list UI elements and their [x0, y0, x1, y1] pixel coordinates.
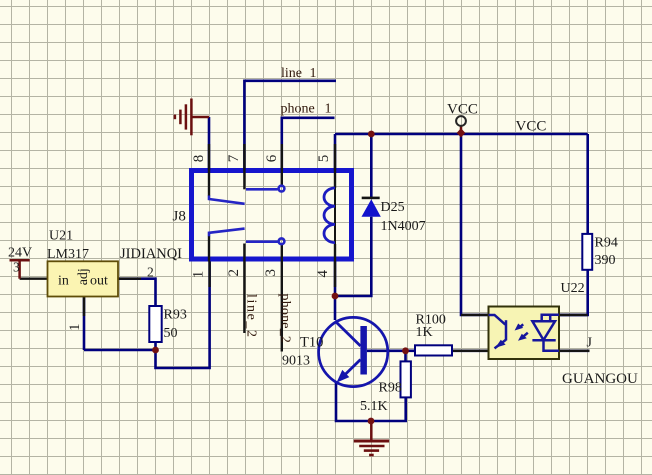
svg-text:390: 390 — [595, 253, 616, 268]
svg-text:JIDIANQI: JIDIANQI — [120, 246, 182, 262]
svg-text:1: 1 — [310, 66, 317, 81]
svg-text:1: 1 — [67, 324, 83, 332]
svg-text:9013: 9013 — [282, 354, 310, 369]
svg-text:out: out — [90, 274, 108, 289]
svg-text:5: 5 — [316, 155, 332, 163]
svg-text:5.1K: 5.1K — [360, 399, 388, 414]
svg-text:line: line — [281, 66, 302, 81]
svg-text:3: 3 — [263, 269, 279, 277]
svg-text:line_2: line_2 — [244, 294, 259, 339]
svg-text:J: J — [587, 336, 593, 351]
svg-text:J8: J8 — [173, 209, 186, 225]
svg-text:D25: D25 — [381, 200, 405, 215]
svg-text:R98: R98 — [379, 381, 402, 396]
svg-text:1N4007: 1N4007 — [381, 219, 426, 234]
svg-text:R93: R93 — [164, 308, 187, 323]
svg-text:1: 1 — [325, 102, 332, 117]
svg-text:50: 50 — [164, 326, 178, 341]
svg-text:GUANGOU: GUANGOU — [562, 371, 638, 387]
svg-text:7: 7 — [226, 154, 242, 162]
svg-text:R94: R94 — [595, 236, 618, 251]
svg-text:1K: 1K — [416, 325, 433, 340]
svg-text:4: 4 — [315, 270, 331, 278]
svg-text:U21: U21 — [49, 229, 73, 244]
svg-text:in: in — [58, 274, 69, 289]
svg-text:2: 2 — [147, 265, 154, 280]
svg-text:T10: T10 — [300, 335, 323, 351]
svg-text:2: 2 — [226, 269, 242, 277]
svg-text:adj: adj — [76, 268, 91, 285]
svg-text:6: 6 — [264, 154, 280, 162]
svg-text:1: 1 — [190, 271, 206, 279]
svg-text:VCC: VCC — [516, 119, 547, 135]
svg-text:phone: phone — [281, 102, 315, 117]
svg-text:phone_2: phone_2 — [278, 294, 293, 344]
svg-text:3: 3 — [13, 260, 20, 275]
svg-text:24V: 24V — [8, 246, 32, 261]
svg-text:VCC: VCC — [447, 102, 478, 118]
svg-text:U22: U22 — [561, 281, 585, 296]
svg-text:8: 8 — [191, 155, 207, 163]
svg-text:LM317: LM317 — [47, 247, 89, 262]
